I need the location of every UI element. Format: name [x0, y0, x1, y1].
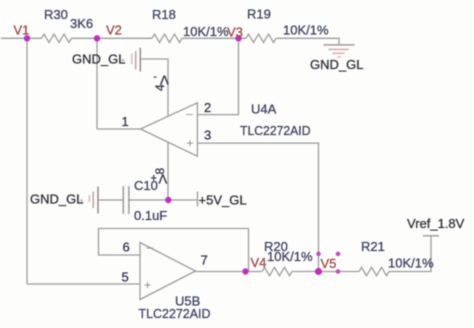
wire pin2 to V3 — [197, 38, 238, 114]
power port +5V_GL bar — [197, 192, 199, 207]
resistor R18 — [152, 34, 182, 42]
power port Vref bar — [423, 235, 439, 237]
ground GND_GL top-right (earth) — [324, 45, 355, 57]
ground GND_GL top-left (sideways) — [132, 48, 141, 72]
wire R21 to Vref port — [389, 236, 431, 272]
wire V2 vertical — [96, 38, 98, 129]
svg-text:1: 1 — [122, 114, 129, 129]
svg-text:6: 6 — [123, 240, 130, 255]
svg-text:Λ: Λ — [160, 73, 169, 88]
node V1 junction dot — [24, 35, 30, 41]
wire pin8 stub — [167, 142, 169, 200]
pin numbers — [122, 72, 212, 285]
wire V1 vertical — [26, 38, 28, 284]
svg-text:10K/1%: 10K/1% — [183, 24, 229, 39]
port attach mark C10 ground — [80, 199, 82, 201]
wire pin6 feedback loop — [99, 229, 249, 272]
resistor R19 — [246, 34, 276, 42]
wire V3 segment — [182, 37, 246, 39]
svg-text:+: + — [151, 173, 157, 185]
svg-text:V1: V1 — [14, 23, 30, 38]
wire to top-right ground — [276, 38, 339, 45]
node V3 junction dot — [235, 35, 241, 41]
port attach mark top-left ground — [122, 59, 124, 61]
svg-text:V5: V5 — [321, 256, 337, 271]
op-amp U5B triangle — [140, 243, 196, 300]
node V2 junction dot — [94, 35, 100, 41]
svg-text:GND_GL: GND_GL — [72, 52, 125, 67]
svg-text:GND_GL: GND_GL — [310, 57, 363, 72]
wire top rail left segment — [1, 37, 42, 39]
resistor R20 — [262, 267, 292, 275]
svg-text:10K/1%: 10K/1% — [388, 256, 434, 271]
wire V5 segment — [292, 271, 359, 273]
svg-text:3K6: 3K6 — [70, 16, 93, 31]
svg-text:U4A: U4A — [251, 102, 277, 117]
svg-text:V2: V2 — [106, 23, 122, 38]
wire pin5 horizontal — [27, 283, 140, 285]
ground GND_GL at C10 (sideways) — [89, 187, 98, 214]
svg-text:–: – — [147, 240, 154, 254]
wire pin7 output — [196, 271, 263, 273]
power net names — [30, 52, 465, 232]
svg-text:2: 2 — [204, 100, 211, 115]
svg-text:0.1uF: 0.1uF — [134, 208, 167, 223]
svg-text:V3: V3 — [227, 25, 243, 40]
svg-text:7: 7 — [201, 253, 208, 268]
svg-text:Vref_1.8V: Vref_1.8V — [407, 216, 465, 231]
svg-text:10K/1%: 10K/1% — [267, 249, 313, 264]
svg-text:TLC2272AID: TLC2272AID — [240, 123, 311, 138]
svg-text:R30: R30 — [44, 7, 68, 22]
svg-text:TLC2272AID: TLC2272AID — [139, 306, 211, 321]
svg-text:V4: V4 — [251, 255, 267, 270]
wire gnd to C10 — [98, 199, 123, 201]
wire V2 segment — [72, 37, 153, 39]
capacitor C10 plates — [123, 186, 129, 214]
node V5 selection handles — [316, 252, 340, 274]
resistor R30 — [42, 34, 72, 42]
wire C10 to +5V port — [129, 199, 197, 201]
wire pin1 horizontal — [97, 128, 141, 130]
svg-text:10K/1%: 10K/1% — [283, 23, 329, 38]
svg-text:+: + — [187, 136, 194, 150]
net labels — [14, 23, 337, 272]
resistor R21 — [359, 267, 389, 275]
svg-text:3: 3 — [204, 128, 211, 143]
labels: component designators and values — [44, 7, 434, 322]
svg-text:5: 5 — [122, 270, 129, 285]
svg-text:–: – — [186, 107, 193, 121]
node V4 junction dot — [242, 268, 248, 274]
svg-text:+5V_GL: +5V_GL — [199, 193, 247, 208]
svg-text:Λ: Λ — [159, 172, 168, 187]
svg-text:R18: R18 — [152, 7, 176, 22]
svg-text:R19: R19 — [247, 7, 271, 22]
op-amp U4A triangle — [141, 103, 198, 156]
svg-text:+: + — [144, 278, 151, 292]
op-amp input polarity marks — [144, 107, 194, 293]
node V5 junction dot — [315, 268, 322, 275]
svg-text:-: - — [154, 72, 157, 83]
wire pin3 to V5 — [197, 143, 318, 271]
svg-text:GND_GL: GND_GL — [30, 192, 83, 207]
svg-text:R21: R21 — [361, 239, 385, 254]
node +5V junction dot — [165, 197, 171, 203]
wire gnd to pin4 — [140, 59, 168, 116]
